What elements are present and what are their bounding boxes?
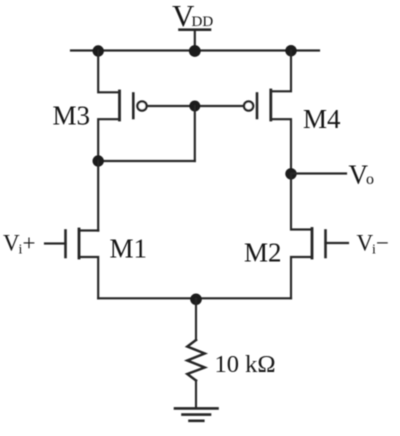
svg-text:V: V — [3, 231, 20, 256]
transistor M2 — [291, 174, 348, 298]
svg-text:M2: M2 — [244, 238, 282, 268]
wire VDD stub — [194, 30, 196, 51]
junction top-right — [285, 45, 296, 56]
junction gate bus — [189, 101, 200, 112]
svg-text:M3: M3 — [53, 101, 91, 131]
junction top-left — [93, 45, 104, 56]
transistor M4 — [244, 51, 291, 175]
svg-text:+: + — [23, 231, 36, 256]
wire bottom rail — [98, 297, 291, 299]
wire mirror tie horizontal — [98, 160, 195, 162]
svg-text:o: o — [366, 171, 374, 188]
transistor M3 — [98, 51, 146, 162]
wire tail upper — [195, 299, 197, 340]
svg-text:10 kΩ: 10 kΩ — [215, 351, 276, 378]
power net VDD label — [172, 0, 213, 33]
input Vi- label — [357, 231, 389, 258]
wire gate bus M3-M4 — [147, 105, 244, 107]
junction top-middle — [189, 45, 201, 57]
svg-text:M4: M4 — [303, 104, 341, 134]
transistor M1 — [45, 229, 98, 298]
junction tail node — [190, 294, 202, 306]
wire tail lower — [195, 381, 197, 408]
node Vo label — [349, 160, 375, 190]
wire mirror tie vertical — [194, 106, 196, 161]
wire output tap — [291, 172, 346, 174]
svg-text:DD: DD — [192, 14, 214, 30]
junction M3 drain — [93, 155, 104, 166]
resistor R 10k — [187, 340, 204, 381]
junction output node — [285, 168, 296, 179]
svg-text:−: − — [376, 231, 389, 256]
VDD supply bar — [180, 28, 211, 31]
svg-text:V: V — [357, 231, 374, 256]
wire top rail — [71, 49, 319, 51]
ground — [175, 408, 218, 420]
input Vi+ label — [3, 231, 35, 258]
svg-text:M1: M1 — [110, 234, 148, 264]
wire left branch — [97, 161, 99, 231]
